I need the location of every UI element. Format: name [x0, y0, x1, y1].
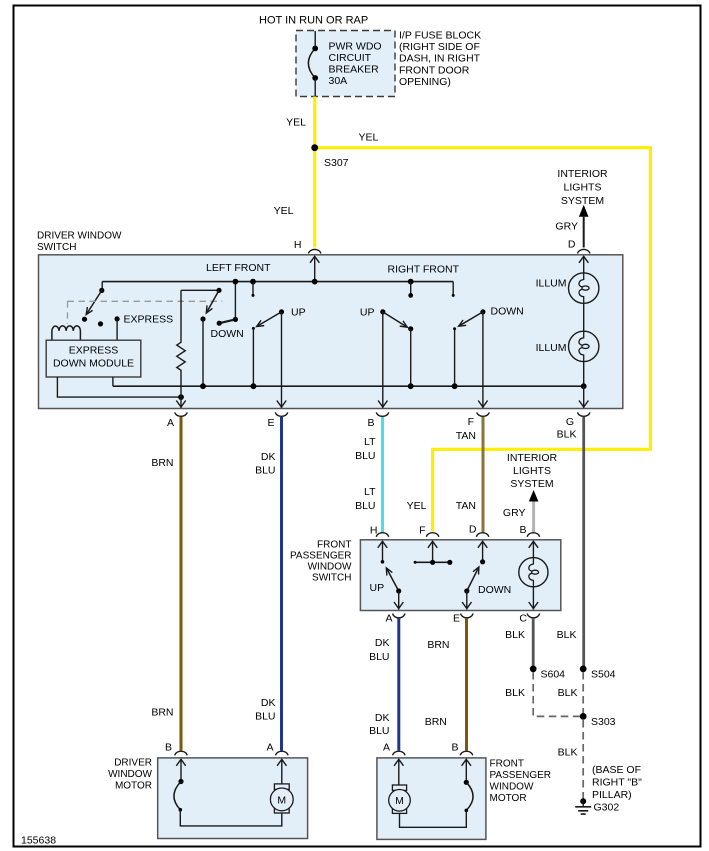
svg-text:S307: S307 — [324, 157, 349, 169]
connector arc pin D top — [578, 249, 590, 253]
svg-text:B: B — [451, 742, 458, 754]
svg-text:G302: G302 — [594, 802, 620, 814]
lamp ILLUM 2 — [569, 331, 599, 361]
svg-text:B: B — [367, 417, 374, 429]
wire right UP pivot to pin B — [382, 312, 384, 408]
pin B stub — [532, 541, 534, 558]
wire bar to bus — [234, 282, 236, 320]
svg-text:M: M — [277, 794, 286, 806]
svg-text:LT: LT — [364, 486, 376, 498]
wire lamp2 to bus — [583, 362, 585, 387]
svg-text:GRY: GRY — [555, 221, 578, 233]
svg-text:B: B — [165, 742, 172, 754]
connector arcs passenger top pins — [376, 533, 388, 537]
svg-text:F: F — [468, 416, 474, 428]
svg-text:YEL: YEL — [286, 117, 306, 129]
svg-text:E: E — [453, 613, 460, 625]
svg-text:DK: DK — [375, 637, 390, 649]
svg-text:GRY: GRY — [503, 507, 526, 519]
svg-text:FRONT: FRONT — [490, 759, 524, 770]
driver window motor box — [158, 758, 308, 839]
wire BRN passenger E to motor B — [465, 618, 468, 751]
left DOWN switch pivot — [216, 288, 221, 293]
right UP switch pivot — [380, 309, 385, 314]
svg-text:MOTOR: MOTOR — [490, 793, 527, 804]
svg-text:BLU: BLU — [369, 651, 389, 663]
express switch contact — [82, 317, 87, 322]
svg-text:D: D — [568, 239, 576, 251]
wire bus to pin G — [583, 386, 585, 408]
svg-text:H: H — [370, 525, 378, 537]
svg-text:FRONT: FRONT — [317, 540, 351, 551]
svg-text:DOWN: DOWN — [211, 328, 244, 340]
svg-text:BREAKER: BREAKER — [329, 64, 380, 76]
wire YEL S307 right and down to passenger F — [315, 148, 651, 532]
right DOWN switch pivot — [480, 309, 485, 314]
left UP contact — [252, 327, 255, 330]
top bus wire — [102, 281, 453, 283]
wire breaker to motor — [400, 810, 467, 827]
svg-text:BLK: BLK — [558, 687, 578, 699]
svg-text:A: A — [383, 742, 390, 754]
svg-text:BRN: BRN — [151, 457, 173, 469]
svg-text:RIGHT FRONT: RIGHT FRONT — [388, 264, 460, 276]
node S504 — [580, 666, 587, 673]
svg-text:I/P FUSE BLOCK: I/P FUSE BLOCK — [399, 29, 481, 41]
svg-text:DASH, IN RIGHT: DASH, IN RIGHT — [399, 53, 481, 65]
pin A stub with arrow — [398, 759, 400, 785]
lamp ILLUM 1 — [569, 273, 599, 303]
pin H stub — [314, 256, 316, 282]
right front open stub — [452, 282, 454, 296]
svg-text:LEFT FRONT: LEFT FRONT — [206, 262, 271, 274]
circuit breaker passenger motor — [464, 780, 469, 785]
passenger UP switch arm — [386, 568, 398, 591]
svg-text:(RIGHT SIDE OF: (RIGHT SIDE OF — [399, 41, 480, 53]
pin A stub with arrow — [281, 759, 283, 784]
svg-text:SWITCH: SWITCH — [37, 242, 76, 253]
svg-text:CIRCUIT: CIRCUIT — [329, 52, 372, 64]
right UP switch arm — [383, 312, 408, 327]
left UP switch pivot — [279, 309, 284, 314]
svg-text:BLU: BLU — [355, 500, 375, 512]
svg-text:ILLUM: ILLUM — [536, 342, 567, 354]
pin D stub with arrow — [583, 256, 585, 273]
lamp passenger switch — [519, 558, 548, 587]
svg-text:30A: 30A — [329, 75, 348, 87]
left UP switch arm — [257, 312, 282, 327]
circuit breaker 30A — [308, 48, 315, 78]
wire BLK passenger C to S604 — [532, 618, 535, 669]
closed contact bar — [219, 319, 235, 323]
wire TAN driver F to passenger D — [482, 417, 485, 533]
pin B arrow — [378, 401, 387, 408]
coil of express down module — [52, 326, 81, 340]
svg-text:PILLAR): PILLAR) — [592, 789, 632, 801]
svg-text:BLU: BLU — [255, 465, 275, 477]
left DOWN switch arm — [206, 290, 219, 313]
EXPRESS contact — [115, 316, 120, 321]
wire DOWN pivot to pin E — [466, 591, 468, 610]
dashed wire S303 to G302 — [582, 720, 584, 799]
svg-text:MOTOR: MOTOR — [115, 781, 152, 792]
pin F stub — [432, 541, 434, 562]
svg-text:HOT IN RUN OR RAP: HOT IN RUN OR RAP — [259, 15, 368, 27]
svg-text:UP: UP — [360, 307, 375, 319]
open contact dot — [98, 321, 103, 326]
svg-text:H: H — [294, 239, 302, 251]
express down module box U176 — [46, 340, 141, 377]
pin B stub with arrow — [465, 759, 467, 782]
passenger DOWN switch arm — [467, 567, 479, 591]
motor M passenger — [392, 785, 406, 790]
svg-text:A: A — [167, 417, 174, 429]
svg-text:DOWN: DOWN — [478, 584, 511, 596]
svg-text:ILLUM: ILLUM — [536, 278, 567, 290]
svg-text:EXPRESS: EXPRESS — [124, 314, 174, 326]
svg-text:TAN: TAN — [456, 500, 476, 512]
pin G arrow — [579, 401, 588, 408]
pin F arrow — [478, 401, 487, 408]
svg-text:BLK: BLK — [505, 629, 525, 641]
svg-text:SWITCH: SWITCH — [312, 573, 351, 584]
svg-text:EXPRESS: EXPRESS — [69, 345, 119, 357]
pin E arrow — [277, 401, 286, 408]
svg-text:BLK: BLK — [557, 629, 577, 641]
svg-text:BRN: BRN — [151, 707, 173, 719]
wire module to lower bus — [57, 377, 181, 397]
svg-text:YEL: YEL — [274, 205, 294, 217]
off-page arrow to interior lights — [529, 490, 539, 502]
svg-text:BRN: BRN — [427, 639, 449, 651]
svg-text:UP: UP — [291, 307, 306, 319]
node S303 — [580, 713, 587, 720]
wire BLK driver G to S504 — [582, 417, 585, 669]
svg-text:WINDOW: WINDOW — [308, 562, 352, 573]
svg-text:A: A — [266, 742, 273, 754]
connector arcs bottom pins A E B F G — [175, 412, 187, 416]
svg-text:INTERIOR: INTERIOR — [557, 168, 608, 180]
right DOWN contact — [453, 327, 456, 330]
svg-text:PASSENGER: PASSENGER — [290, 551, 352, 562]
motor M driver — [274, 784, 289, 790]
left DOWN contact — [200, 316, 205, 321]
front passenger window switch box — [360, 540, 560, 611]
svg-text:INTERIOR: INTERIOR — [507, 452, 558, 464]
svg-text:BRN: BRN — [425, 716, 447, 728]
svg-text:FRONT DOOR: FRONT DOOR — [399, 64, 470, 76]
svg-text:YEL: YEL — [359, 132, 379, 144]
circuit breaker driver motor — [178, 779, 183, 784]
wire breaker to box bottom — [314, 78, 316, 97]
ground G302 — [580, 798, 586, 804]
svg-text:BLK: BLK — [558, 747, 578, 759]
svg-text:D: D — [469, 524, 477, 536]
svg-text:DOWN: DOWN — [491, 306, 524, 318]
svg-text:F: F — [419, 525, 425, 537]
wire right DOWN pivot to pin F — [482, 312, 484, 408]
svg-text:E: E — [267, 417, 274, 429]
node S307 — [311, 144, 318, 151]
svg-text:SYSTEM: SYSTEM — [561, 195, 604, 207]
svg-text:WINDOW: WINDOW — [108, 769, 152, 780]
svg-text:155638: 155638 — [21, 835, 56, 847]
right DOWN switch arm — [459, 312, 483, 326]
wire D to interior lights — [583, 217, 585, 248]
wire YEL fuse to S307 — [313, 97, 316, 148]
I/P fuse block box — [296, 31, 395, 97]
wire module to bottom bus — [112, 377, 114, 386]
pin D stub — [482, 541, 484, 562]
svg-text:TAN: TAN — [456, 430, 476, 442]
bottom bus wire — [113, 385, 584, 387]
svg-text:G: G — [566, 416, 574, 428]
svg-text:DK: DK — [261, 697, 276, 709]
node resistor/bus junction — [178, 394, 184, 400]
svg-text:C: C — [519, 613, 527, 625]
svg-text:BLK: BLK — [505, 687, 525, 699]
svg-text:RIGHT "B": RIGHT "B" — [592, 777, 642, 789]
connector arcs driver motor top pins B A — [175, 751, 187, 755]
svg-text:(BASE OF: (BASE OF — [592, 764, 641, 776]
right UP contact — [408, 326, 413, 331]
svg-text:SYSTEM: SYSTEM — [510, 478, 553, 490]
dashed wire S504 to S303 — [582, 672, 584, 716]
wire UP pivot to pin A — [398, 591, 400, 610]
dashed link to express down module — [68, 301, 223, 324]
svg-text:BLU: BLU — [355, 450, 375, 462]
wire lamp to pin C — [532, 587, 534, 610]
wire UP pivot to pin E — [281, 312, 283, 408]
svg-text:PWR WDO: PWR WDO — [329, 41, 382, 53]
svg-text:LIGHTS: LIGHTS — [564, 182, 602, 194]
front passenger window motor box — [377, 758, 486, 840]
svg-text:DRIVER: DRIVER — [114, 758, 152, 769]
wire DK BLU passenger A to motor A — [397, 618, 400, 751]
left open contact stub — [250, 279, 256, 285]
svg-text:LIGHTS: LIGHTS — [513, 465, 551, 477]
svg-text:DK: DK — [375, 712, 390, 724]
svg-text:S604: S604 — [541, 669, 566, 681]
node H junction — [312, 279, 318, 285]
svg-text:DRIVER WINDOW: DRIVER WINDOW — [37, 230, 122, 241]
wire GRY passenger B to interior lights — [532, 502, 535, 533]
wire into breaker — [314, 31, 316, 48]
express switch pivot — [101, 282, 103, 291]
connector arc pin H top — [309, 249, 321, 253]
svg-text:BLU: BLU — [369, 725, 389, 737]
wire breaker to motor — [180, 810, 281, 826]
driver window switch box — [39, 255, 623, 409]
svg-text:BLK: BLK — [557, 429, 577, 441]
svg-text:S504: S504 — [591, 669, 616, 681]
svg-text:S303: S303 — [591, 716, 616, 728]
wire LT BLU driver B to passenger H — [381, 417, 384, 533]
pin H stub — [382, 541, 384, 562]
svg-text:WINDOW: WINDOW — [490, 782, 534, 793]
closed contact bar — [415, 561, 450, 563]
wire lamp1 to lamp2 — [583, 303, 585, 331]
resistor — [177, 290, 185, 408]
express switch arm — [86, 290, 102, 314]
pin B stub with arrow — [180, 759, 182, 782]
pin A arrow — [176, 401, 185, 408]
svg-text:OPENING): OPENING) — [399, 76, 451, 88]
svg-text:UP: UP — [370, 582, 385, 594]
svg-text:A: A — [385, 613, 392, 625]
svg-text:B: B — [519, 524, 526, 536]
off-page arrow to interior lights — [579, 205, 589, 217]
svg-text:PASSENGER: PASSENGER — [490, 770, 552, 781]
svg-text:LT: LT — [364, 436, 376, 448]
svg-text:YEL: YEL — [407, 500, 427, 512]
connector arcs passenger motor top pins A B — [393, 751, 405, 755]
right front feed stub — [408, 279, 414, 285]
dashed wire S604 to S303 — [533, 672, 583, 716]
wire YEL S307 to H — [313, 148, 316, 248]
wire resistor top link — [181, 289, 219, 291]
wire DK BLU driver E to motor A — [280, 417, 283, 751]
wire BRN driver A to motor B — [180, 417, 183, 751]
svg-text:BLU: BLU — [255, 711, 275, 723]
svg-text:M: M — [395, 795, 404, 807]
svg-text:DK: DK — [261, 451, 276, 463]
connector arcs passenger bottom pins A E C — [393, 614, 405, 618]
svg-text:DOWN MODULE: DOWN MODULE — [53, 358, 134, 370]
node S604 — [530, 666, 537, 673]
